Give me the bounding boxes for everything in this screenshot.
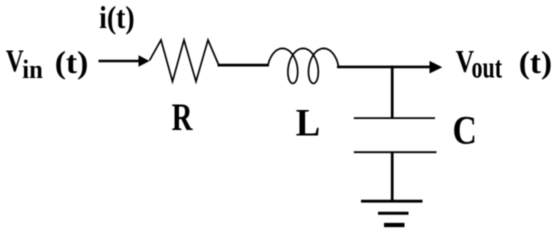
wire resistor to inductor bbox=[218, 64, 270, 67]
wire node junction down to capacitor bbox=[391, 66, 394, 118]
svg-text:(t): (t) bbox=[55, 46, 89, 81]
inductor L1 coil bbox=[268, 48, 339, 83]
label Vout(t) bbox=[456, 45, 552, 85]
svg-text:R: R bbox=[172, 96, 194, 139]
svg-text:V: V bbox=[6, 44, 24, 80]
svg-text:L: L bbox=[296, 101, 320, 144]
ground bar 2 bbox=[378, 212, 409, 215]
svg-text:in: in bbox=[22, 55, 43, 84]
ground bar 1 bbox=[361, 200, 423, 203]
svg-text:out: out bbox=[472, 50, 503, 85]
svg-text:C: C bbox=[453, 109, 477, 153]
capacitor C1 top plate bbox=[354, 117, 435, 119]
label Vin(t) bbox=[6, 44, 88, 84]
current arrow i(t) bbox=[99, 55, 150, 67]
wire capacitor to ground bbox=[391, 152, 394, 201]
output arrow head to Vout bbox=[430, 61, 443, 74]
capacitor C1 bottom plate bbox=[354, 151, 437, 153]
resistor R1 zigzag bbox=[150, 40, 219, 82]
svg-text:(t): (t) bbox=[519, 45, 552, 80]
ground bar 3 bbox=[384, 223, 405, 227]
svg-text:i(t): i(t) bbox=[99, 0, 135, 35]
wire inductor to output node bbox=[337, 66, 431, 69]
